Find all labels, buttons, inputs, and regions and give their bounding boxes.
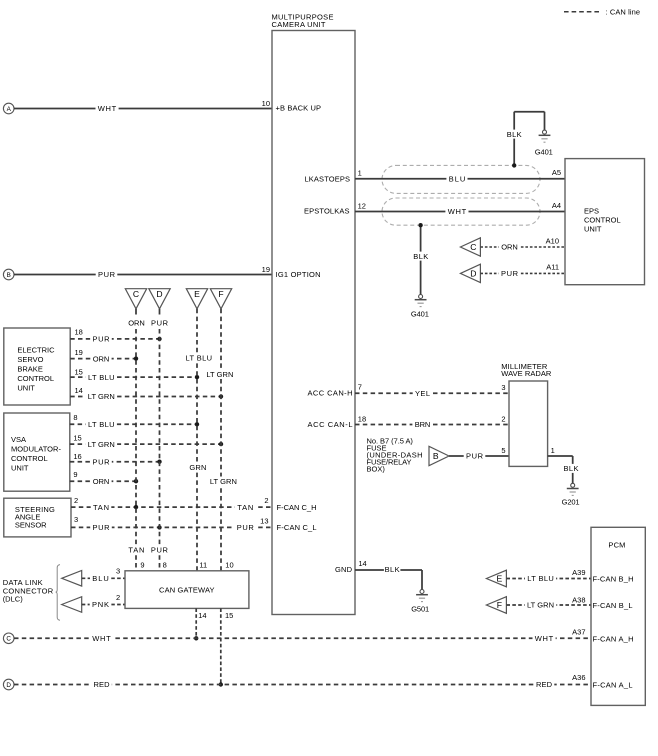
svg-text:ACC CAN-L: ACC CAN-L: [308, 420, 353, 429]
svg-text:+B BACK UP: +B BACK UP: [276, 104, 322, 113]
ESB pin 18: [75, 328, 83, 337]
connector C (to EPS): [460, 238, 480, 256]
svg-text:BLU: BLU: [449, 174, 466, 183]
svg-text:14: 14: [198, 611, 206, 620]
camera pin 10: [262, 99, 270, 108]
wire LT GRN (VSA 15 to node F): [70, 439, 223, 448]
svg-text:CONTROL: CONTROL: [17, 374, 54, 383]
svg-text:12: 12: [358, 201, 366, 210]
wire column D (PUR bus): [150, 309, 170, 571]
svg-text:D: D: [156, 289, 162, 299]
wire LT GRN (F to PCM A38 F-CAN B_L): [506, 595, 591, 609]
connector B: [3, 269, 14, 280]
svg-text:19: 19: [262, 265, 270, 274]
svg-text:G501: G501: [411, 605, 429, 614]
wire BLK (camera GND pin 14 to G501): [355, 565, 422, 589]
svg-text:GRN: GRN: [189, 463, 206, 472]
connector C (top): [125, 289, 146, 309]
svg-text:TAN: TAN: [93, 503, 109, 512]
svg-text:9: 9: [140, 561, 144, 570]
svg-text:LT GRN: LT GRN: [88, 440, 115, 449]
svg-text:ORN: ORN: [93, 354, 110, 363]
svg-text:PCM: PCM: [608, 540, 625, 549]
steering pin 3: [74, 515, 78, 524]
svg-text:LKASTOEPS: LKASTOEPS: [305, 174, 351, 183]
svg-text:(DLC): (DLC): [3, 594, 24, 603]
svg-text:A37: A37: [572, 627, 585, 636]
wire PNK (DLC to gateway pin 2): [82, 593, 125, 609]
wire column E (LT BLU/GRN bus): [185, 309, 213, 571]
VSA modulator-control unit: [4, 413, 70, 491]
electric servo brake control unit: [4, 328, 70, 405]
svg-text:F-CAN B_L: F-CAN B_L: [593, 601, 633, 610]
svg-text:3: 3: [74, 515, 78, 524]
svg-text:A38: A38: [572, 595, 585, 604]
svg-text:14: 14: [75, 386, 83, 395]
svg-text:BLK: BLK: [385, 565, 400, 574]
svg-text:ELECTRIC: ELECTRIC: [17, 345, 55, 354]
wire ORN (ESB 19 to node C): [70, 354, 138, 363]
wire PUR (fuse to radar pin 5): [449, 451, 509, 460]
wire BRN (ACC CAN-L pin 18 to radar pin 2): [355, 420, 509, 429]
wire PUR (VSA 16 to node D): [70, 457, 162, 466]
camera pin 14 (GND): [358, 559, 366, 568]
shield drain wire BLK to G401 (bottom): [413, 223, 429, 294]
wire LT BLU (VSA 8 to node E): [70, 420, 199, 429]
svg-text:LT BLU: LT BLU: [88, 373, 115, 382]
PCM: [591, 527, 645, 705]
svg-text:WHT: WHT: [92, 634, 111, 643]
svg-text:PUR: PUR: [93, 335, 111, 344]
svg-text:D: D: [6, 682, 11, 689]
wire WHT (C to PCM A37 F-CAN A_H): [14, 627, 591, 643]
svg-text:BLU: BLU: [92, 574, 109, 583]
svg-text:F: F: [218, 289, 223, 299]
wire (gateway pin 15 to F-CAN A_L line): [219, 608, 223, 686]
connector D (bottom left): [3, 679, 14, 690]
connector A: [3, 103, 14, 114]
gateway pin 10: [225, 561, 233, 570]
svg-text:2: 2: [116, 593, 120, 602]
camera pin 1: [358, 169, 362, 178]
legend: CAN line: [564, 8, 640, 17]
wire ORN (C to EPS A10): [480, 237, 565, 252]
svg-text:UNIT: UNIT: [584, 225, 602, 234]
svg-text:F-CAN A_H: F-CAN A_H: [593, 634, 634, 643]
shield drain wire BLK to G401 (top): [506, 112, 544, 168]
camera pin 19: [262, 265, 270, 274]
svg-text:LT BLU: LT BLU: [88, 420, 115, 429]
wire WHT (EPSTOLKAS pin 12 to EPS A4): [355, 201, 565, 216]
svg-text:LT BLU: LT BLU: [186, 354, 213, 363]
svg-text:G401: G401: [411, 310, 429, 319]
svg-text:C: C: [133, 289, 139, 299]
DLC connector pin 2 triangle: [62, 597, 82, 613]
svg-text:1: 1: [551, 446, 555, 455]
svg-text:LT GRN: LT GRN: [527, 601, 554, 610]
svg-text:YEL: YEL: [415, 389, 430, 398]
ESB pin 15: [75, 368, 83, 377]
svg-text:3: 3: [501, 383, 505, 392]
svg-text:F-CAN B_H: F-CAN B_H: [593, 575, 634, 584]
svg-text:2: 2: [501, 414, 505, 423]
svg-text:A11: A11: [546, 263, 559, 272]
svg-text:RED: RED: [94, 680, 111, 689]
radar pin 1: [551, 446, 555, 455]
wire RED (D to PCM A36 F-CAN A_L): [14, 673, 591, 689]
svg-text:13: 13: [260, 516, 268, 525]
camera pin 2 (F-CAN C_H): [264, 496, 268, 505]
radar pin 5: [501, 446, 505, 455]
wire PUR (steering 3 to camera F-CAN C_L): [71, 523, 272, 532]
connector D (top): [149, 289, 170, 309]
EPS control unit: [565, 159, 645, 285]
svg-text:PUR: PUR: [93, 523, 111, 532]
wire column F (LT GRN bus): [206, 309, 238, 571]
wire BLK (radar pin 1 to G201): [548, 456, 581, 483]
radar pin 3: [501, 383, 505, 392]
wire PUR (B to camera pin 19): [14, 270, 272, 279]
svg-text:18: 18: [75, 328, 83, 337]
DLC connector pin 3 triangle: [62, 571, 82, 587]
CAN gateway unit: [125, 571, 249, 609]
svg-text:BLK: BLK: [507, 130, 522, 139]
connector E (to PCM): [486, 570, 506, 587]
VSA pin 8: [73, 413, 77, 422]
svg-text:A39: A39: [572, 568, 585, 577]
svg-text:8: 8: [73, 413, 77, 422]
connector E (top): [186, 289, 207, 309]
svg-text:CONTROL: CONTROL: [11, 454, 48, 463]
svg-text:SERVO: SERVO: [17, 355, 43, 364]
wire column C (ORN/TAN bus): [126, 309, 145, 571]
svg-text:LT GRN: LT GRN: [210, 477, 237, 486]
data link connector (DLC) label: [3, 578, 54, 603]
svg-text:LT GRN: LT GRN: [206, 370, 233, 379]
svg-text:10: 10: [225, 561, 233, 570]
svg-text:VSA: VSA: [11, 435, 26, 444]
svg-text:19: 19: [75, 348, 83, 357]
wire WHT (A to camera pin 10): [14, 104, 272, 113]
connector B (fuse feed): [429, 446, 449, 465]
svg-text:BRN: BRN: [415, 420, 431, 429]
ground G201: [562, 483, 580, 506]
svg-text:A10: A10: [546, 237, 559, 246]
ESB pin 14: [75, 386, 83, 395]
wire YEL (ACC CAN-H pin 7 to radar pin 3): [355, 389, 509, 398]
svg-text:G401: G401: [535, 148, 553, 157]
svg-text:PUR: PUR: [237, 523, 255, 532]
svg-text:F-CAN A_L: F-CAN A_L: [593, 680, 633, 689]
wire (gateway pin 14 to F-CAN A_H line): [194, 608, 198, 640]
svg-text:C: C: [6, 636, 11, 643]
svg-text:7: 7: [358, 382, 362, 391]
svg-text:F: F: [497, 600, 502, 610]
gateway pin 14: [198, 611, 206, 620]
svg-text:PUR: PUR: [98, 270, 116, 279]
svg-text:PUR: PUR: [466, 452, 484, 461]
VSA pin 16: [73, 452, 81, 461]
svg-text:EPSTOLKAS: EPSTOLKAS: [304, 207, 350, 216]
svg-text:GND: GND: [335, 565, 353, 574]
svg-text:BRAKE: BRAKE: [17, 364, 42, 373]
svg-text:MODULATOR-: MODULATOR-: [11, 444, 62, 453]
svg-text:ORN: ORN: [93, 477, 110, 486]
svg-text:A5: A5: [552, 168, 561, 177]
camera pin 7: [358, 382, 362, 391]
svg-text:EPS: EPS: [584, 207, 599, 216]
svg-text:TAN: TAN: [128, 546, 144, 555]
svg-text:BLK: BLK: [564, 464, 579, 473]
svg-text:16: 16: [73, 452, 81, 461]
svg-text:10: 10: [262, 99, 270, 108]
svg-text:PNK: PNK: [92, 600, 109, 609]
multipurpose camera unit: [272, 13, 356, 615]
svg-text:11: 11: [199, 561, 207, 570]
wire LT BLU (ESB 15 to node E): [70, 372, 199, 381]
wire PUR (ESB 18 to node D): [70, 334, 162, 343]
svg-text:5: 5: [501, 446, 505, 455]
shielded twisted pair (LKAS lines): [382, 165, 540, 225]
svg-text:2: 2: [264, 496, 268, 505]
svg-text:WHT: WHT: [98, 104, 117, 113]
DLC brace: [56, 565, 60, 621]
svg-text:UNIT: UNIT: [11, 464, 29, 473]
svg-text:CAMERA UNIT: CAMERA UNIT: [272, 20, 326, 29]
gateway pin 15: [225, 611, 233, 620]
svg-text:3: 3: [116, 566, 120, 575]
VSA pin 15: [73, 434, 81, 443]
svg-text:CAN GATEWAY: CAN GATEWAY: [159, 586, 215, 595]
fuse No. B7 label: [367, 437, 423, 474]
svg-text:E: E: [194, 289, 200, 299]
camera pin 13 (F-CAN C_L): [260, 516, 268, 525]
svg-text:15: 15: [225, 611, 233, 620]
svg-text:CONTROL: CONTROL: [584, 216, 621, 225]
radar pin 2: [501, 414, 505, 423]
svg-text:LT BLU: LT BLU: [527, 574, 554, 583]
svg-text:RED: RED: [536, 680, 553, 689]
svg-text:8: 8: [163, 561, 167, 570]
svg-text:ORN: ORN: [501, 243, 518, 252]
svg-text:1: 1: [358, 169, 362, 178]
svg-text:WAVE RADAR: WAVE RADAR: [501, 369, 552, 378]
svg-text:: CAN line: : CAN line: [606, 8, 641, 17]
svg-text:F-CAN C_L: F-CAN C_L: [277, 523, 317, 532]
VSA pin 9: [73, 470, 77, 479]
connector F (top): [210, 289, 231, 309]
svg-text:14: 14: [358, 559, 366, 568]
connector D (to EPS): [460, 264, 480, 282]
wire ORN (VSA 9 to node C): [70, 477, 138, 486]
connector C (bottom left): [3, 633, 14, 644]
wire TAN (steering 2 to camera F-CAN C_H): [71, 502, 272, 511]
camera pin 18: [358, 415, 366, 424]
steering pin 2: [74, 496, 78, 505]
svg-text:A36: A36: [572, 673, 585, 682]
wire BLU (LKASTOEPS pin 1 to EPS A5): [355, 168, 565, 183]
svg-text:LT GRN: LT GRN: [88, 392, 115, 401]
svg-text:G201: G201: [562, 498, 580, 507]
svg-text:E: E: [497, 574, 503, 584]
svg-text:F-CAN C_H: F-CAN C_H: [277, 503, 317, 512]
connector F (to PCM): [486, 597, 506, 614]
ground G501: [411, 590, 429, 614]
svg-text:2: 2: [74, 496, 78, 505]
svg-text:UNIT: UNIT: [17, 383, 35, 392]
millimeter wave radar: [501, 362, 552, 466]
wire LT GRN (ESB 14 to node F): [70, 392, 223, 401]
svg-text:BLK: BLK: [413, 252, 428, 261]
svg-text:PUR: PUR: [151, 546, 169, 555]
svg-text:WHT: WHT: [448, 207, 467, 216]
svg-text:PUR: PUR: [93, 457, 111, 466]
svg-text:A4: A4: [552, 201, 561, 210]
svg-text:ORN: ORN: [128, 318, 145, 327]
svg-text:PUR: PUR: [501, 269, 519, 278]
svg-text:BOX): BOX): [367, 465, 386, 474]
ground G401 (top): [535, 130, 553, 156]
svg-text:D: D: [470, 269, 476, 279]
gateway pin 11: [199, 561, 207, 570]
svg-text:15: 15: [73, 434, 81, 443]
svg-text:SENSOR: SENSOR: [15, 520, 47, 529]
svg-text:ACC CAN-H: ACC CAN-H: [308, 388, 353, 397]
gateway pin 9: [140, 561, 144, 570]
svg-text:18: 18: [358, 415, 366, 424]
svg-text:B: B: [433, 451, 439, 461]
steering angle sensor: [4, 498, 71, 537]
svg-text:PUR: PUR: [151, 318, 169, 327]
wire BLU (DLC to gateway pin 3): [82, 566, 125, 583]
svg-text:IG1 OPTION: IG1 OPTION: [276, 270, 321, 279]
camera pin 12: [358, 201, 366, 210]
svg-text:9: 9: [73, 470, 77, 479]
wire PUR (D to EPS A11): [480, 263, 565, 279]
gateway pin 8: [163, 561, 167, 570]
svg-text:WHT: WHT: [535, 634, 554, 643]
wire LT BLU (E to PCM A39 F-CAN B_H): [506, 568, 591, 583]
ground G401 (bottom): [411, 295, 429, 319]
svg-text:B: B: [7, 272, 11, 279]
ESB pin 19: [75, 348, 83, 357]
svg-text:TAN: TAN: [237, 503, 253, 512]
svg-text:C: C: [470, 242, 476, 252]
svg-text:15: 15: [75, 368, 83, 377]
